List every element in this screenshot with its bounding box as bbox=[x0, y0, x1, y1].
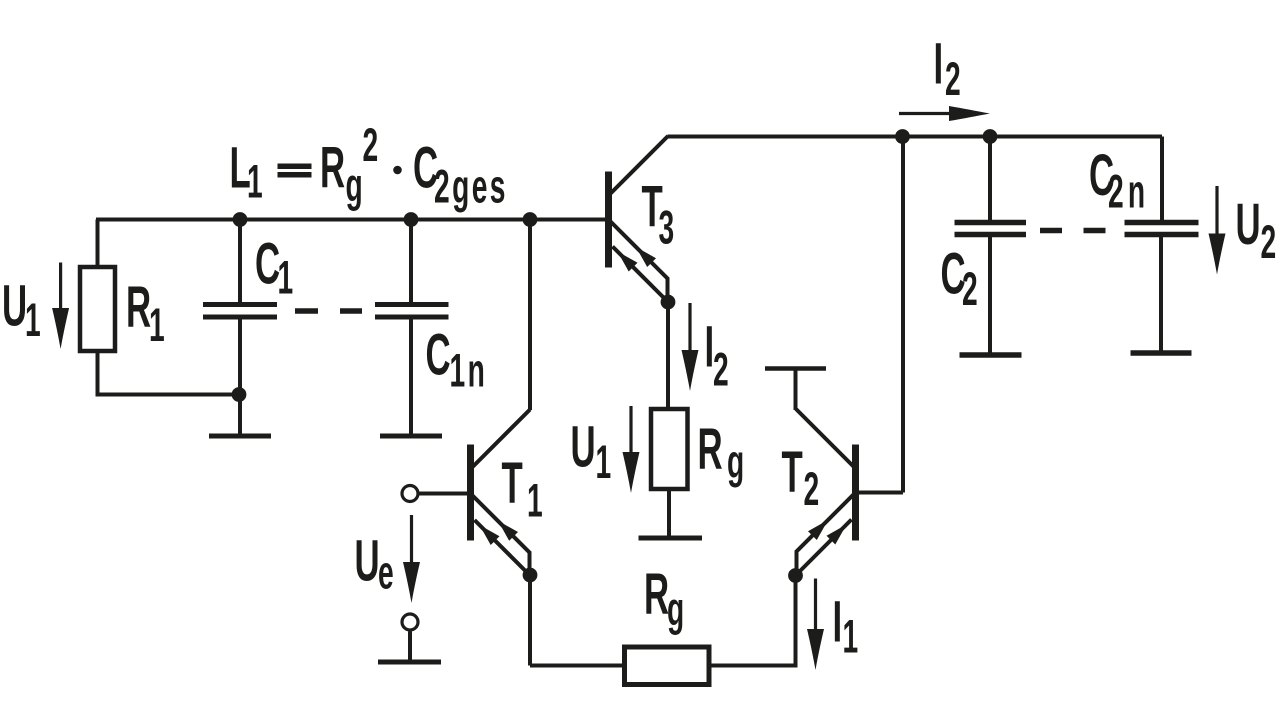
label C1n bbox=[426, 324, 488, 398]
label U1 left bbox=[2, 275, 41, 347]
svg-text:1: 1 bbox=[278, 252, 294, 304]
svg-text:1: 1 bbox=[843, 611, 859, 663]
svg-text:C: C bbox=[426, 324, 451, 388]
node T3 emitter bbox=[661, 295, 676, 310]
wire Rg mid to ground bbox=[667, 489, 671, 536]
wire top rail bbox=[668, 135, 1163, 139]
terminal circle Ue top bbox=[402, 486, 418, 502]
svg-text:2n: 2n bbox=[1108, 166, 1149, 218]
wire C2 top stem bbox=[988, 137, 992, 221]
supply bar above T2 bbox=[765, 366, 826, 371]
ground under R1 bbox=[209, 434, 271, 439]
arrow I2 middle bbox=[682, 303, 699, 391]
arrow Ue bbox=[403, 515, 420, 603]
ground under Rg middle bbox=[639, 536, 703, 541]
svg-text:T: T bbox=[782, 441, 803, 505]
wire bottom left to Rg bbox=[530, 664, 625, 668]
label Ue bbox=[355, 530, 394, 600]
wire C1 bottom stem bbox=[238, 320, 242, 395]
resistor Rg middle bbox=[651, 409, 688, 489]
svg-text:R: R bbox=[126, 276, 151, 340]
svg-text:C: C bbox=[255, 233, 280, 297]
capacitor C1 bbox=[203, 305, 277, 318]
wire main top-left rail bbox=[96, 218, 605, 222]
node main rail above C1 bbox=[233, 212, 248, 227]
svg-text:I: I bbox=[934, 32, 944, 96]
label U1 middle bbox=[571, 415, 612, 489]
wire C2 bottom stem bbox=[988, 237, 992, 353]
svg-text:T: T bbox=[502, 452, 523, 516]
svg-text:2: 2 bbox=[804, 464, 820, 516]
node top rail C2 bbox=[983, 129, 998, 144]
wire junction to ground bbox=[238, 395, 242, 434]
label T1 bbox=[502, 452, 543, 527]
svg-text:1: 1 bbox=[596, 437, 612, 489]
svg-text:e: e bbox=[378, 547, 394, 599]
svg-text:2: 2 bbox=[363, 120, 379, 172]
wire C1 top stem bbox=[238, 220, 242, 303]
svg-text:U: U bbox=[571, 415, 596, 479]
label C1 bbox=[255, 233, 293, 305]
label C2n bbox=[1089, 144, 1149, 218]
node main rail above C1n bbox=[404, 212, 419, 227]
svg-text:R: R bbox=[698, 418, 723, 482]
node T1 emitter bbox=[523, 568, 538, 583]
arrow I1 bbox=[807, 579, 824, 671]
wire C2n bottom stem bbox=[1159, 237, 1163, 351]
svg-text:R: R bbox=[644, 563, 669, 627]
wire T1 base bbox=[420, 492, 468, 496]
resistor R1 bbox=[80, 267, 115, 351]
wire C1n top stem bbox=[409, 220, 413, 303]
arrow U1 left bbox=[52, 263, 69, 350]
svg-text:I: I bbox=[833, 590, 843, 654]
wire R1 bottom to junction bbox=[98, 351, 241, 395]
svg-text:U: U bbox=[355, 530, 380, 594]
wire C1n bottom stem bbox=[409, 320, 413, 434]
arrow I2 top bbox=[899, 106, 990, 121]
wire Ue lower stem bbox=[408, 632, 412, 660]
label T2 bbox=[782, 441, 820, 516]
capacitor C2 bbox=[955, 223, 1027, 235]
capacitor C1n bbox=[375, 305, 449, 318]
wire Rg to T2 emitter riser bbox=[709, 576, 796, 666]
node R1 bottom junction bbox=[232, 387, 247, 402]
transistor T3 bbox=[605, 136, 668, 302]
transistor T2 bbox=[796, 409, 859, 576]
node top rail T2 base bbox=[895, 129, 910, 144]
svg-text:2: 2 bbox=[962, 264, 978, 316]
label Rg bottom bbox=[644, 563, 684, 636]
wire T1 collector vertical bbox=[528, 220, 532, 411]
svg-text:g: g bbox=[667, 584, 684, 636]
capacitor C2n bbox=[1125, 223, 1199, 235]
wire T2 base bbox=[859, 491, 904, 495]
svg-text:g: g bbox=[727, 436, 744, 488]
wire T2 base vertical riser bbox=[901, 137, 905, 493]
svg-text:2ges: 2ges bbox=[434, 161, 508, 213]
arrow U1 middle bbox=[623, 406, 640, 493]
resistor Rg bottom bbox=[625, 647, 710, 685]
svg-text:1: 1 bbox=[527, 475, 543, 527]
label Rg middle bbox=[698, 418, 745, 488]
svg-text:2: 2 bbox=[713, 344, 729, 396]
label I2 top bbox=[934, 32, 961, 106]
node T2 emitter bbox=[788, 568, 803, 583]
svg-text:1: 1 bbox=[25, 295, 41, 347]
svg-text:2: 2 bbox=[945, 54, 961, 106]
wire left vertical to R1 bbox=[96, 220, 100, 268]
svg-text:U: U bbox=[2, 275, 27, 339]
svg-text:1: 1 bbox=[149, 300, 165, 352]
svg-text:1n: 1n bbox=[450, 345, 488, 397]
terminal circle Ue bottom bbox=[402, 614, 418, 630]
wire T3 emitter to Rg bbox=[666, 302, 670, 409]
wire rail down to C2n bbox=[1160, 137, 1164, 221]
svg-text:1: 1 bbox=[247, 156, 263, 208]
svg-text:R: R bbox=[320, 137, 345, 201]
ground under Ue bbox=[378, 660, 441, 665]
svg-text:2: 2 bbox=[1261, 217, 1277, 269]
arrow U2 bbox=[1209, 186, 1226, 275]
dashed link C2 to C2n bbox=[1040, 228, 1106, 234]
svg-text:U: U bbox=[1236, 193, 1261, 257]
label formula L1 = Rg^2 * C2ges bbox=[230, 120, 508, 214]
transistor T1 bbox=[467, 410, 530, 576]
terminal bar under C2n bbox=[1131, 350, 1192, 356]
dashed link C1 to C1n bbox=[295, 308, 362, 314]
label I2 middle bbox=[705, 316, 729, 397]
wire T1 emitter down bbox=[528, 575, 532, 666]
label I1 bbox=[833, 590, 859, 663]
label R1 bbox=[126, 276, 165, 352]
label C2 bbox=[941, 243, 978, 316]
label T3 bbox=[642, 176, 675, 255]
label U2 bbox=[1236, 193, 1277, 269]
svg-text:3: 3 bbox=[659, 202, 675, 254]
node main rail above T1 collector bbox=[523, 212, 538, 227]
svg-text:g: g bbox=[346, 160, 363, 212]
terminal bar under C2 bbox=[960, 352, 1022, 358]
ground under C1n bbox=[380, 434, 442, 439]
wire T2 supply stem bbox=[794, 370, 798, 410]
